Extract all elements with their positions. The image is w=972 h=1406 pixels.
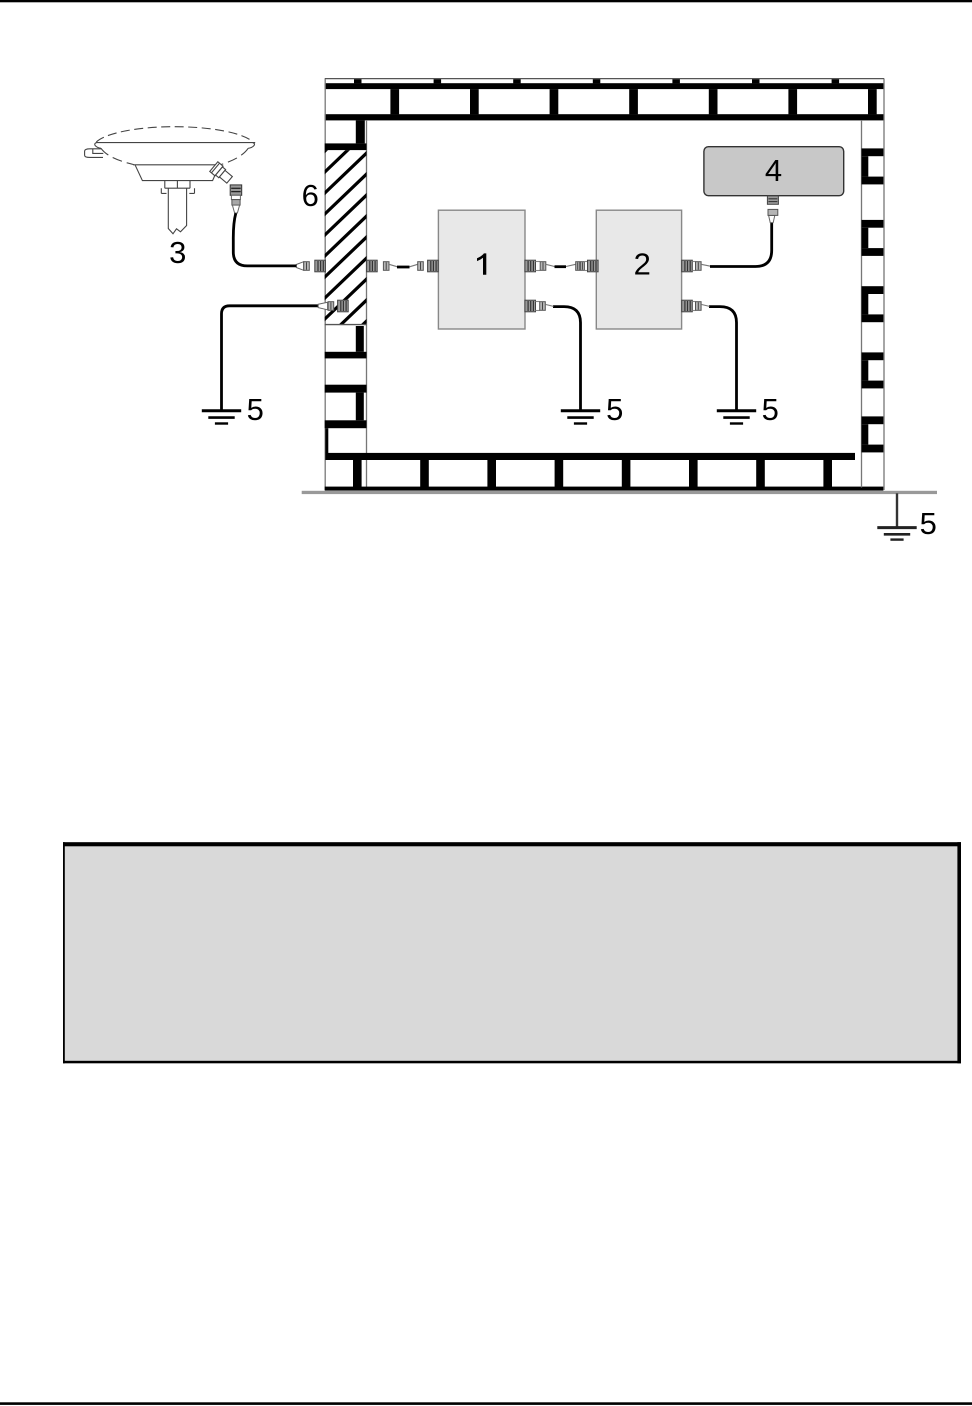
svg-text:2: 2: [634, 247, 651, 282]
svg-text:5: 5: [606, 392, 623, 427]
svg-text:5: 5: [247, 392, 264, 427]
svg-text:5: 5: [920, 506, 937, 541]
svg-text:6: 6: [302, 178, 319, 213]
svg-text:5: 5: [762, 392, 779, 427]
svg-text:4: 4: [765, 153, 782, 188]
svg-text:3: 3: [169, 235, 186, 270]
